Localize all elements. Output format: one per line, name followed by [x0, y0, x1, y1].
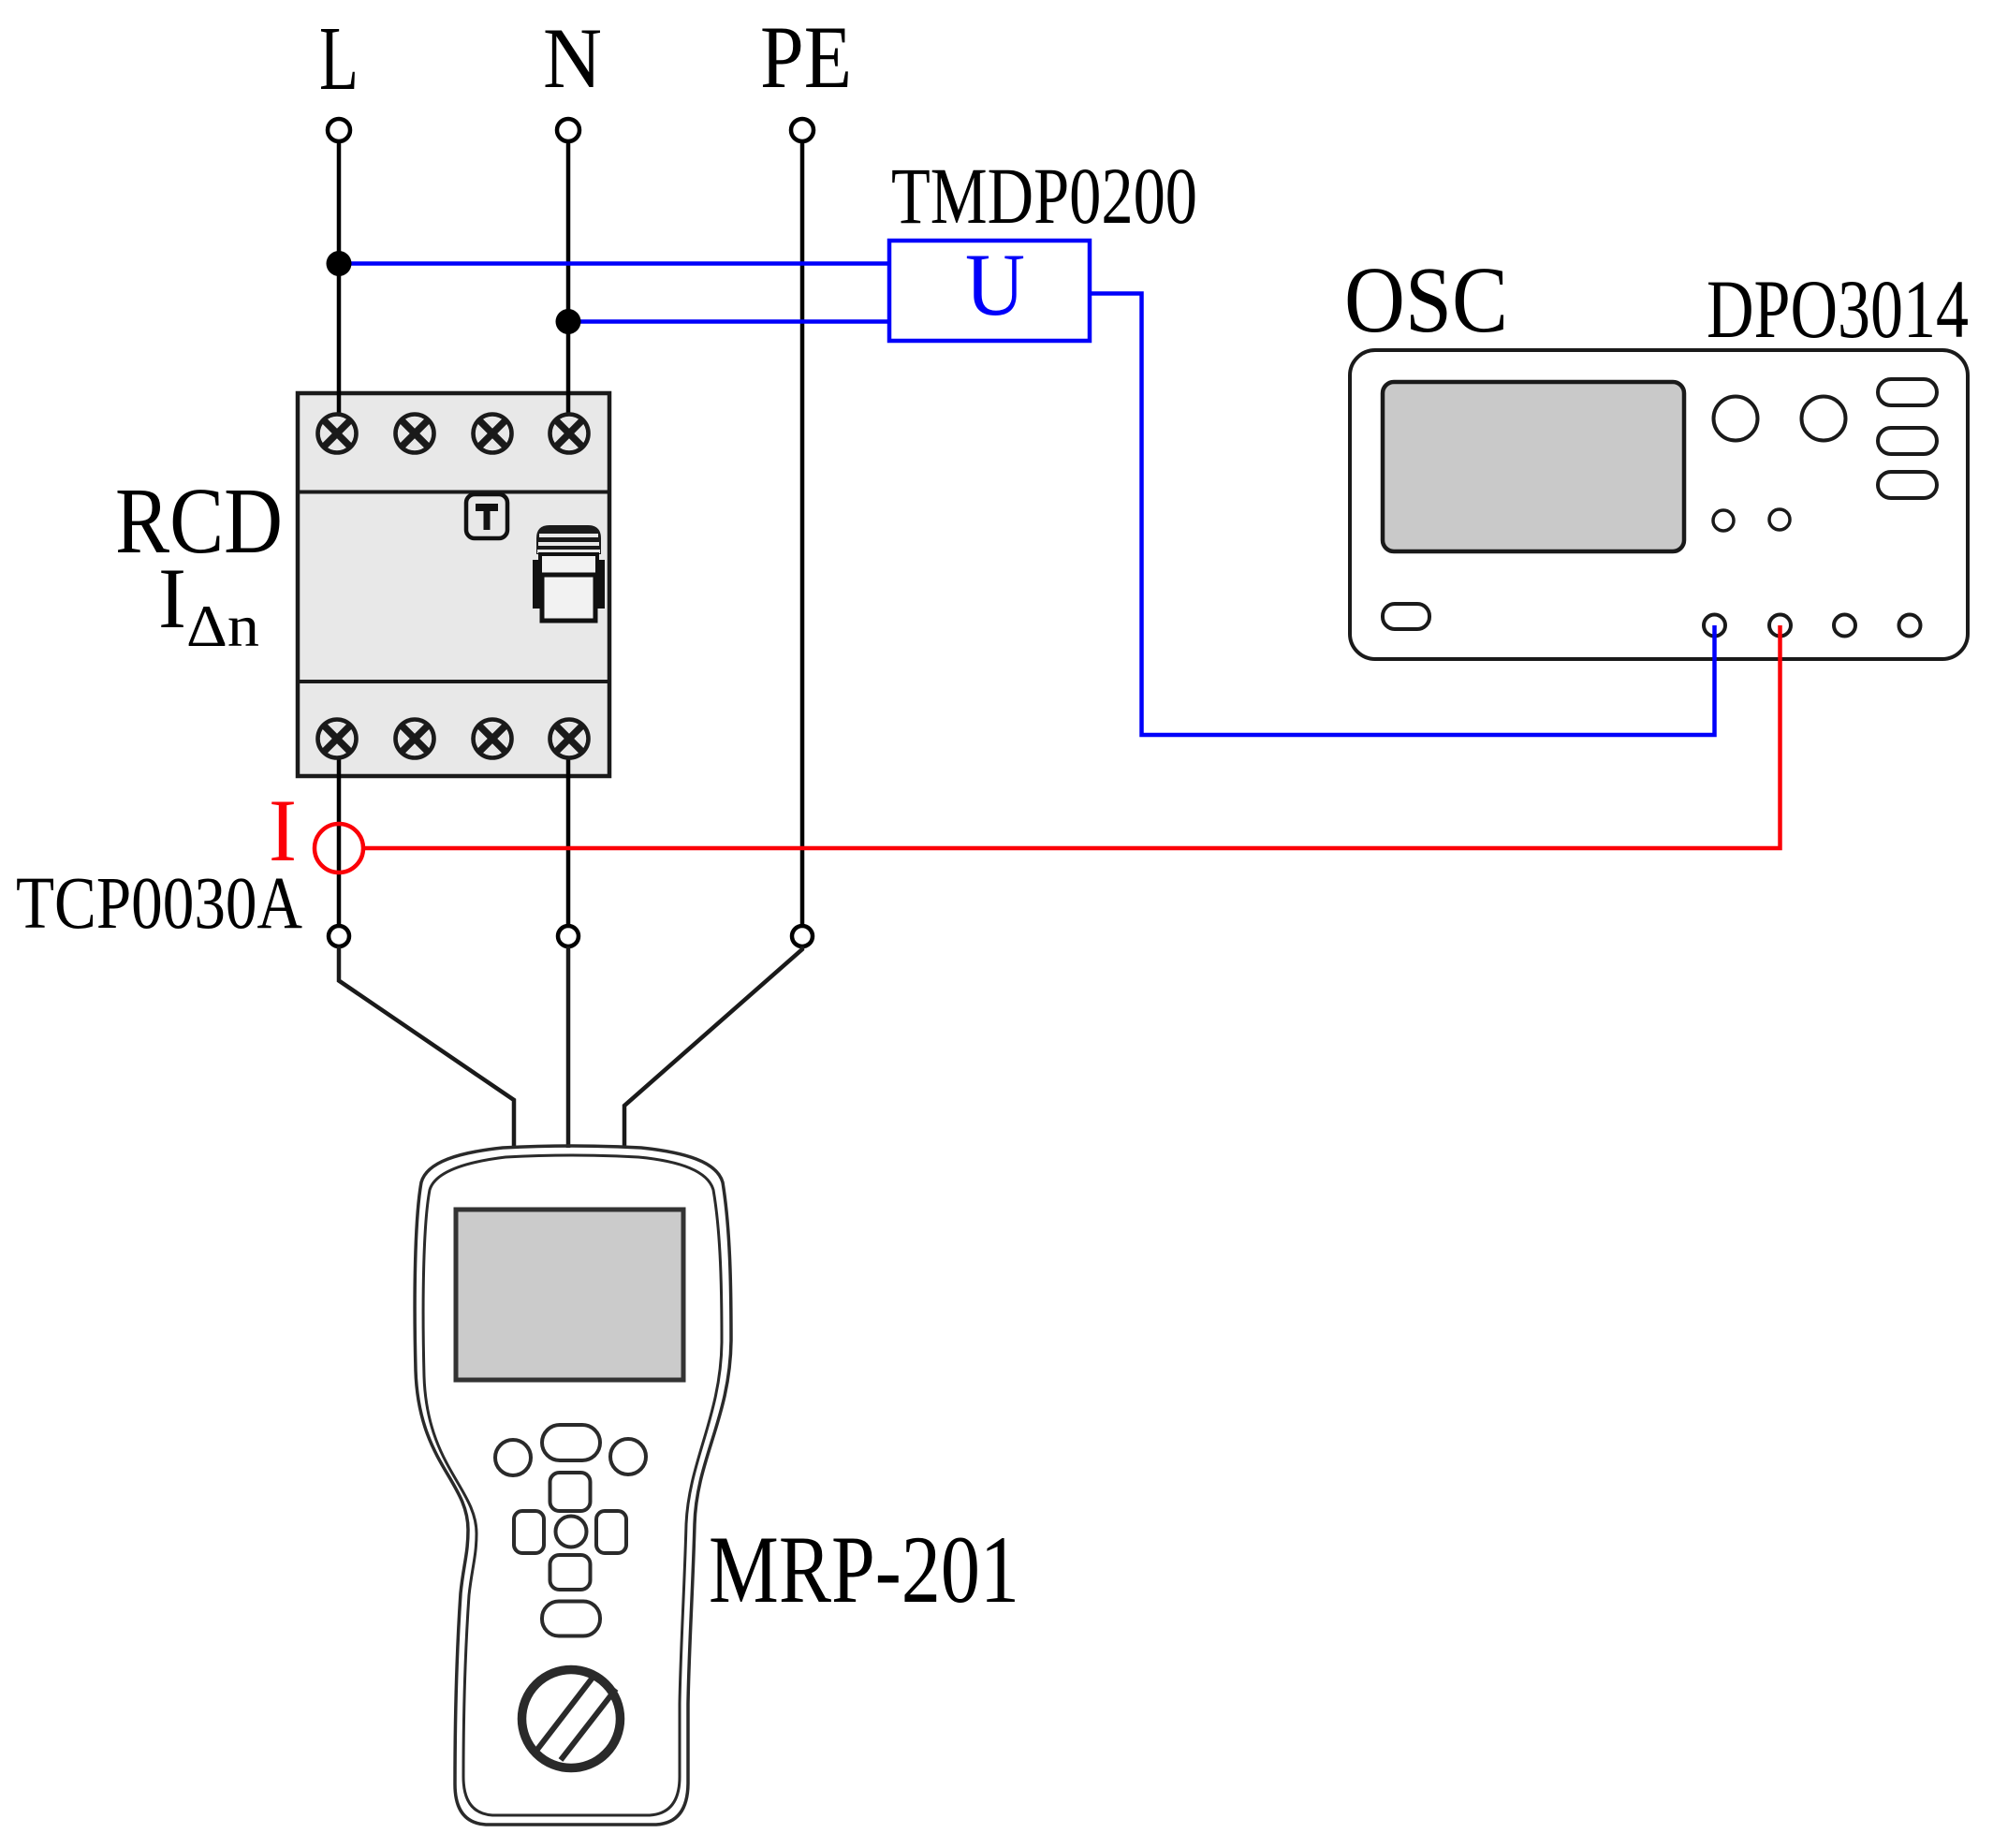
wire N bottom: [566, 739, 571, 926]
oscilloscope knob 1: [1714, 397, 1758, 441]
terminal PE: [791, 119, 813, 141]
MRP-201 arrow key down: [550, 1555, 591, 1590]
svg-text:OSC: OSC: [1344, 247, 1508, 352]
wire N to tester: [566, 946, 571, 1148]
MRP-201 key right round: [610, 1439, 646, 1474]
svg-text:Δn: Δn: [186, 594, 259, 659]
svg-text:DPO3014: DPO3014: [1707, 264, 1969, 356]
oscilloscope DPO3014 body: [1350, 350, 1968, 659]
terminal N: [557, 119, 579, 141]
MRP-201 rotary knob: [522, 1670, 621, 1768]
current probe TCP0030A circle: [315, 824, 363, 873]
RCD terminal screw 6: [396, 720, 434, 758]
wire L top: [337, 141, 342, 433]
svg-text:RCD: RCD: [115, 468, 283, 573]
wire U probe N (blue): [568, 319, 889, 324]
RCD test button T: [466, 494, 507, 538]
MRP-201 function key top: [542, 1425, 600, 1460]
RCD terminal screw 8 (N out): [550, 720, 589, 758]
junction dot N: [556, 309, 581, 334]
wire L bottom: [337, 739, 342, 926]
oscilloscope menu button 2: [1878, 428, 1937, 454]
RCD terminal screw 7: [474, 720, 512, 758]
oscilloscope BNC CH2: [1769, 615, 1791, 637]
oscilloscope power button: [1383, 604, 1429, 629]
MRP-201 arrow key left: [514, 1511, 544, 1553]
oscilloscope BNC CH1: [1704, 615, 1725, 637]
wire PE vertical: [800, 141, 805, 926]
wire N top: [566, 141, 571, 433]
MRP-201 keypad: [495, 1425, 646, 1636]
oscilloscope small knob 2: [1769, 509, 1790, 530]
RCD terminal screw 4 (N in): [550, 415, 589, 453]
svg-text:TMDP0200: TMDP0200: [891, 151, 1197, 241]
MRP-201 key left round: [495, 1440, 531, 1475]
MRP-201 tester body: [415, 1146, 731, 1825]
svg-text:PE: PE: [760, 7, 852, 107]
MRP-201 screen: [456, 1210, 683, 1380]
mid terminal N: [558, 926, 579, 946]
svg-text:U: U: [965, 235, 1025, 334]
MRP-201 arrow key up: [550, 1473, 591, 1511]
RCD switch lever: [533, 525, 605, 621]
oscilloscope small knob 1: [1713, 510, 1734, 531]
wire current probe to oscilloscope CH2 (red): [363, 625, 1781, 848]
wire U box to oscilloscope CH1 (blue): [1090, 294, 1715, 736]
wire U probe L (blue): [339, 261, 889, 266]
terminal L: [328, 119, 350, 141]
RCD body: [298, 393, 609, 776]
RCD screws: [318, 415, 589, 758]
RCD terminal screw 1 (L in): [318, 415, 357, 453]
oscilloscope knob 2: [1802, 397, 1846, 441]
RCD terminal screw 5 (L out): [318, 720, 357, 758]
RCD terminal screw 2: [396, 415, 434, 453]
MRP-201 function key bottom: [542, 1602, 600, 1636]
svg-text:N: N: [543, 10, 602, 106]
wire PE to tester: [624, 946, 802, 1148]
RCD terminal screw 3: [474, 415, 512, 453]
voltage probe U box TMDP0200: [889, 241, 1090, 341]
mid terminal PE: [792, 926, 813, 946]
junction dot L: [327, 251, 352, 276]
svg-text:L: L: [319, 8, 359, 110]
svg-text:I: I: [158, 550, 186, 646]
oscilloscope menu button 1: [1878, 379, 1937, 405]
oscilloscope BNC CH4: [1899, 615, 1921, 637]
MRP-201 arrow key right: [596, 1511, 626, 1553]
mid terminal L: [329, 926, 349, 946]
oscilloscope BNC CH3: [1834, 615, 1855, 637]
MRP-201 enter key: [556, 1517, 587, 1547]
svg-text:TCP0030A: TCP0030A: [16, 863, 302, 945]
svg-text:MRP-201: MRP-201: [709, 1517, 1019, 1623]
oscilloscope menu button 3: [1878, 472, 1937, 498]
wire L to tester: [339, 946, 514, 1148]
oscilloscope screen: [1383, 382, 1684, 551]
